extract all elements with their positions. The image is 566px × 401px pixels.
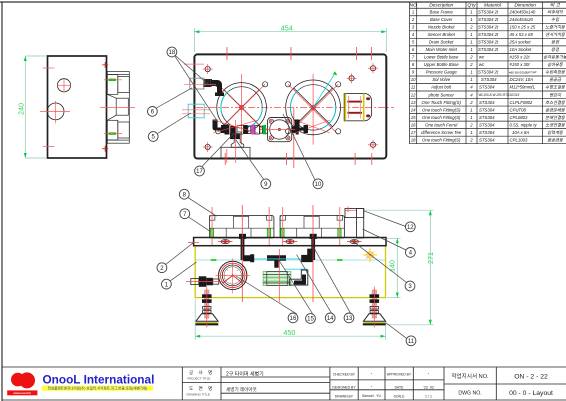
title block grid — [2, 367, 566, 400]
svg-text:공 사 명: 공 사 명 — [189, 369, 214, 376]
svg-text:#60 BU/SO(B)PT/PF: #60 BU/SO(B)PT/PF — [509, 70, 537, 74]
svg-text:140: 140 — [387, 260, 396, 272]
svg-text:M12*50mm(L: M12*50mm(L — [509, 85, 535, 90]
svg-text:18: 18 — [169, 50, 176, 56]
svg-text:16: 16 — [290, 316, 297, 322]
svg-text:Sol Volve: Sol Volve — [432, 77, 451, 82]
side bracket assembly — [107, 72, 129, 144]
left elbow — [243, 254, 254, 262]
drain stand below — [221, 135, 250, 158]
balloon circles — [148, 47, 416, 346]
svg-text:Base Cover: Base Cover — [430, 17, 453, 22]
svg-text:Pressure Gauge: Pressure Gauge — [426, 70, 458, 75]
title block labels — [187, 369, 264, 397]
svg-text:photo Sencer: photo Sencer — [427, 92, 454, 97]
red centerline verticals circles — [242, 74, 314, 145]
right elbow lower — [289, 270, 308, 285]
adjustable foot right — [363, 287, 386, 328]
right bottle circle — [285, 71, 340, 135]
dim 140 — [387, 238, 401, 297]
svg-text:11: 11 — [408, 339, 415, 345]
svg-text:Lower Bottle base: Lower Bottle base — [424, 55, 459, 60]
svg-text:ON - 2 - 22: ON - 2 - 22 — [514, 374, 548, 381]
svg-text:APPROVED BY: APPROVED BY — [387, 372, 412, 376]
svg-text:13: 13 — [346, 316, 353, 322]
adjustable foot left — [195, 287, 218, 328]
svg-text:wc: wc — [479, 55, 485, 60]
cyan pipe line — [250, 258, 302, 260]
svg-text:DC24V, 10A: DC24V, 10A — [509, 77, 533, 82]
svg-text:STS304: STS304 — [479, 100, 495, 105]
svg-text:STS304: STS304 — [481, 77, 497, 82]
right elbow upper — [301, 249, 313, 262]
svg-text:STS304: STS304 — [479, 122, 495, 127]
svg-text:1 / 1: 1 / 1 — [425, 394, 432, 398]
svg-text:Adjust bolt: Adjust bolt — [430, 85, 452, 90]
svg-text:difference Screw Tee: difference Screw Tee — [421, 130, 462, 135]
svg-text:STS304 2t: STS304 2t — [478, 17, 499, 22]
photo sencer block (center) — [260, 118, 302, 142]
svg-text:13: 13 — [411, 100, 416, 105]
svg-text:wc: wc — [479, 62, 485, 67]
T fitting top — [267, 255, 286, 267]
svg-text:STS304: STS304 — [479, 85, 495, 90]
svg-text:00 - 0 - Layout: 00 - 0 - Layout — [509, 390, 553, 397]
sencer broket (right component) — [344, 93, 371, 120]
svg-text:비 고: 비 고 — [550, 3, 561, 9]
svg-text:150 x 25 x 25: 150 x 25 x 25 — [509, 25, 535, 30]
logo tagline — [42, 386, 153, 391]
cyan fitting (5) — [188, 104, 204, 118]
svg-text:물공급: 물공급 — [549, 77, 562, 82]
plate bolts — [218, 240, 362, 244]
red construction X lines bottom-left area — [213, 120, 330, 133]
svg-text:STS304: STS304 — [479, 130, 495, 135]
svg-text:병감지: 병감지 — [549, 92, 562, 97]
dim 271 — [365, 210, 434, 325]
svg-text:Base Frame: Base Frame — [430, 10, 454, 15]
logo web banner — [7, 390, 37, 395]
svg-text:11: 11 — [411, 85, 416, 90]
logo red mark — [11, 372, 35, 388]
svg-text:17: 17 — [196, 169, 203, 175]
red edge ticks top — [225, 47, 372, 168]
right platform (bottle base) — [280, 205, 344, 302]
svg-text:OnooL International: OnooL International — [43, 372, 155, 386]
svg-text:240: 240 — [17, 103, 26, 115]
svg-text:2구 타이머 세병기: 2구 타이머 세병기 — [226, 370, 264, 377]
svg-text:244x454x20: 244x454x20 — [508, 17, 533, 22]
svg-text:Description: Description — [429, 3, 453, 9]
red centerline horizontal — [196, 106, 394, 108]
dim 240 — [25, 56, 46, 158]
side view hole lower — [47, 103, 64, 120]
svg-text:호스연결용: 호스연결용 — [545, 100, 566, 105]
svg-text:14: 14 — [411, 107, 416, 112]
svg-text:CPL1003: CPL1003 — [509, 137, 528, 142]
svg-text:CHECKED BY: CHECKED BY — [333, 372, 356, 376]
svg-text:0.5S, nipple ty: 0.5S, nipple ty — [509, 122, 537, 127]
svg-text:12: 12 — [411, 92, 416, 97]
drain stand tee fitting — [230, 133, 241, 139]
svg-text:Sencer Broket: Sencer Broket — [428, 32, 456, 37]
svg-text:STS304 2t: STS304 2t — [478, 32, 499, 37]
svg-text:DRAWING TITLE: DRAWING TITLE — [187, 393, 210, 397]
svg-text:분배연결용: 분배연결용 — [545, 115, 566, 120]
svg-text:One touch Fitting(S): One touch Fitting(S) — [422, 107, 461, 112]
svg-text:15: 15 — [411, 115, 416, 120]
cyan level line — [196, 259, 385, 261]
svg-text:STS304 2t: STS304 2t — [478, 25, 499, 30]
svg-text:압력계용: 압력계용 — [547, 130, 564, 135]
green clamp bars side view — [108, 80, 116, 134]
svg-text:45 x 53 x 65: 45 x 53 x 65 — [509, 32, 533, 37]
sol valve assembly — [243, 249, 313, 302]
red corner marks side view — [102, 62, 108, 152]
svg-text:DRAWN BY: DRAWN BY — [335, 394, 354, 398]
svg-text:#150 x 22t: #150 x 22t — [509, 55, 530, 60]
svg-text:학성플랜트엔지니어링(주) 보일러,삭각파트,지그,버큠,포: 학성플랜트엔지니어링(주) 보일러,삭각파트,지그,버큠,포밍(세병기류) — [48, 386, 148, 391]
svg-text:도 면 명: 도 면 명 — [189, 385, 214, 391]
elbow fitting lower (18b) — [213, 120, 226, 134]
side view hole upper — [57, 79, 70, 92]
svg-text:STS304 2t: STS304 2t — [478, 47, 499, 52]
svg-text:10: 10 — [411, 77, 416, 82]
leader lines — [157, 56, 407, 339]
clamp bolt right — [310, 234, 317, 239]
svg-text:DWG NO.: DWG NO. — [458, 391, 481, 397]
pressure gauge — [216, 259, 251, 294]
red centerlines at inlet fitting — [184, 64, 216, 84]
svg-text:Upper Bottle Base: Upper Bottle Base — [424, 62, 459, 67]
svg-text:STS304 2t: STS304 2t — [478, 40, 499, 45]
svg-text:One touch Ferrul: One touch Ferrul — [425, 122, 458, 127]
svg-text:수평조절용: 수평조절용 — [545, 85, 566, 90]
svg-text:454: 454 — [281, 23, 293, 32]
svg-text:NO: NO — [410, 3, 417, 9]
fitting chain below left circle — [225, 125, 266, 135]
svg-text:10: 10 — [315, 182, 322, 188]
svg-text:PROJECT TITLE: PROJECT TITLE — [188, 377, 211, 381]
table header — [410, 3, 561, 9]
base frame body (yellow outline) — [195, 246, 385, 298]
svg-text:CPL0803: CPL0803 — [509, 115, 528, 120]
corner mount holes — [203, 63, 378, 152]
dim 454 — [194, 28, 386, 52]
clamp bolt left — [239, 234, 246, 239]
base cover plate — [194, 238, 386, 246]
svg-text:Dimention: Dimention — [514, 3, 536, 9]
svg-text:One Touch Fitting(S): One Touch Fitting(S) — [422, 100, 462, 105]
svg-text:STS304 2t: STS304 2t — [478, 70, 499, 75]
svg-text:18: 18 — [411, 137, 416, 142]
red centerlines side view — [40, 68, 135, 147]
svg-text:Nozzle Broket: Nozzle Broket — [428, 25, 456, 30]
left platform (bottle base) — [210, 205, 274, 302]
svg-text:'23 .02: '23 .02 — [423, 385, 434, 389]
svg-text:DESIGNED BY: DESIGNED BY — [332, 385, 356, 389]
svg-text:CLPLF0802: CLPLF0802 — [509, 100, 533, 105]
table grid — [410, 2, 566, 144]
svg-text:14: 14 — [327, 316, 334, 322]
svg-text:상하유동: 상하유동 — [547, 62, 564, 67]
svg-text:수압측정용: 수압측정용 — [545, 70, 566, 75]
valve body green — [263, 272, 291, 286]
svg-text:용접: 용접 — [551, 47, 560, 52]
svg-text:SCALE: SCALE — [393, 394, 405, 398]
dim 450 — [195, 299, 385, 340]
L bracket right (12) — [345, 209, 364, 239]
svg-text:16: 16 — [411, 122, 416, 127]
svg-text:공급분배용: 공급분배용 — [545, 107, 566, 112]
svg-text:450: 450 — [283, 328, 295, 337]
svg-text:물공급용: 물공급용 — [547, 137, 564, 142]
svg-text:www.onool.kr: www.onool.kr — [13, 391, 32, 395]
svg-text:12: 12 — [407, 225, 414, 231]
svg-text:One touch Fitting(S): One touch Fitting(S) — [422, 137, 461, 142]
fitting right of block — [292, 125, 299, 135]
svg-text:Q'ty: Q'ty — [467, 3, 476, 9]
svg-text:15: 15 — [307, 317, 314, 323]
svg-text:CPUT08: CPUT08 — [509, 107, 526, 112]
base frame top view — [194, 54, 386, 158]
svg-text:작업지시서 NO.: 작업지시서 NO. — [451, 372, 489, 380]
svg-text:STS304: STS304 — [479, 115, 495, 120]
svg-text:STS304: STS304 — [479, 137, 495, 142]
svg-text:수입: 수입 — [551, 17, 560, 22]
svg-text:240x450x140: 240x450x140 — [508, 10, 535, 15]
svg-text:세병기 레이아웃: 세병기 레이아웃 — [226, 386, 257, 393]
svg-text:#150 x 30t: #150 x 30t — [509, 62, 530, 67]
svg-text:One touch Fitting(S): One touch Fitting(S) — [422, 115, 461, 120]
yellow target mark right — [363, 248, 377, 262]
svg-text:노즐거치용: 노즐거치용 — [545, 25, 566, 30]
balloon numbers — [151, 50, 415, 345]
svg-text:271: 271 — [426, 252, 435, 264]
svg-text:10A x 8A: 10A x 8A — [512, 130, 529, 135]
svg-text:STS304 2t: STS304 2t — [478, 10, 499, 15]
side view body — [48, 56, 107, 158]
left hose fitting — [186, 276, 222, 287]
svg-text:용접: 용접 — [551, 40, 560, 45]
svg-text:Drain Socket: Drain Socket — [429, 40, 454, 45]
svg-text:센서거치용: 센서거치용 — [545, 32, 566, 37]
red tick on plate left edge — [188, 241, 199, 243]
elbow fitting right circle — [295, 120, 309, 134]
svg-text:외주제작: 외주제작 — [547, 10, 564, 15]
svg-text:Moin Woter Inlet: Moin Woter Inlet — [426, 47, 458, 52]
svg-text:STS304: STS304 — [479, 107, 495, 112]
svg-text:Samuel . YU: Samuel . YU — [362, 394, 382, 398]
svg-text:10A Socket: 10A Socket — [509, 47, 532, 52]
svg-text:상하유동가능: 상하유동가능 — [543, 55, 566, 60]
table rows — [411, 10, 474, 143]
gray inlet fitting (6) — [190, 78, 204, 89]
left bottle circle — [216, 82, 268, 134]
svg-text:Materiol: Materiol — [484, 3, 502, 9]
elbow fitting upper (18a) — [203, 79, 224, 96]
svg-text:17: 17 — [411, 130, 416, 135]
svg-text:소켓연결용: 소켓연결용 — [545, 122, 566, 127]
svg-text:25A socket: 25A socket — [508, 40, 531, 45]
svg-text:WL100-8-W-200-RT/102/115: WL100-8-W-200-RT/102/115 — [479, 93, 520, 97]
cyan pointer with green arrow — [313, 75, 334, 107]
svg-text:DATE: DATE — [395, 385, 405, 389]
